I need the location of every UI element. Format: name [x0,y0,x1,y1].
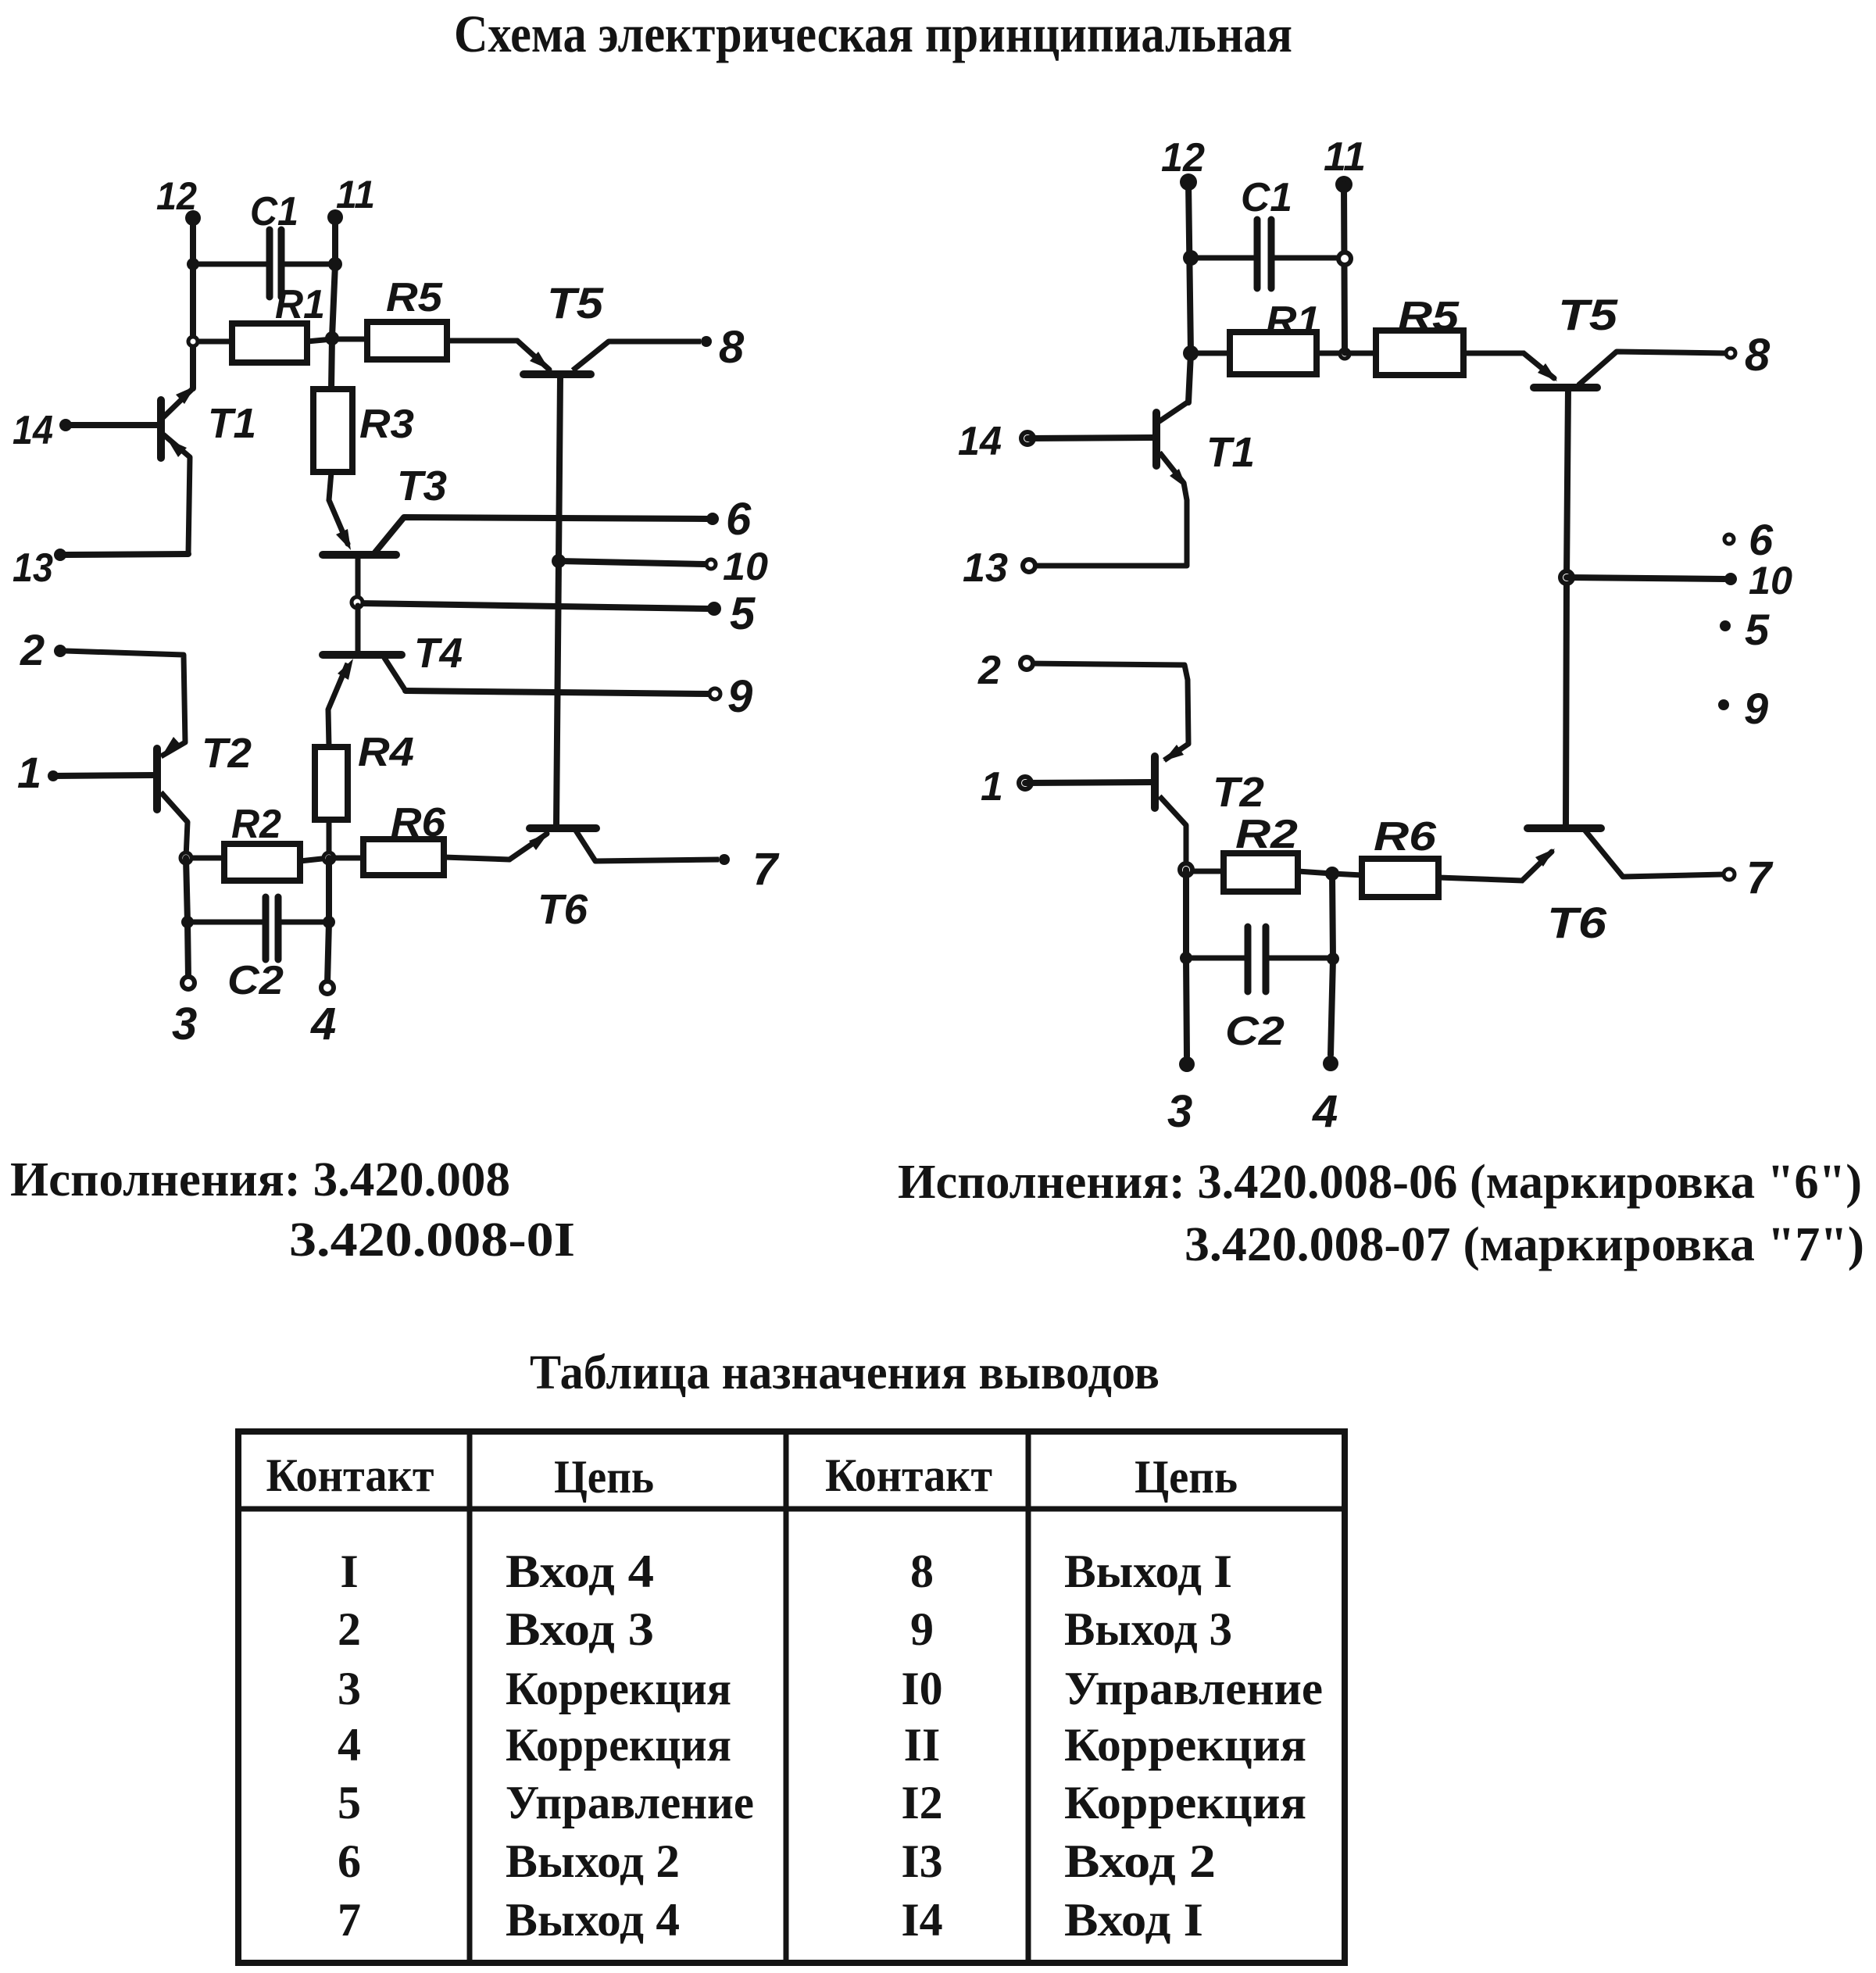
svg-text:R1: R1 [275,282,325,327]
junction C2 right (left) [323,916,335,928]
svg-text:Вход 3: Вход 3 [506,1603,654,1655]
capacitor C2 (left) [188,897,329,1003]
svg-text:II: II [904,1719,941,1771]
svg-text:Управление: Управление [1064,1663,1323,1714]
junction 12-C1 (right) [1183,250,1199,266]
svg-text:2: 2 [20,625,45,674]
svg-text:Вход I: Вход I [1064,1894,1203,1946]
node 13 (left) [54,549,66,561]
svg-text:Выход 4: Выход 4 [506,1894,680,1946]
svg-text:1: 1 [17,748,41,797]
table row 4: 4 Коррекция / II Коррекция [338,1719,1306,1771]
node 6 (left) [706,513,719,525]
svg-text:9: 9 [727,671,752,722]
node 3 (right) [1179,1056,1195,1072]
svg-text:12: 12 [1161,135,1205,181]
node 4 (left) [321,981,334,994]
wire T2col to pin3 (right) [1186,870,1187,1056]
capacitor C1 (left) [193,189,335,297]
node 5 (left) [707,602,721,616]
svg-text:Коррекция: Коррекция [506,1663,731,1714]
junction control-10 (left) [552,554,566,568]
svg-text:T5: T5 [547,278,604,327]
junction R2-R6 (right) [1325,867,1339,881]
svg-text:C2: C2 [227,958,284,1003]
svg-text:3: 3 [172,999,197,1049]
svg-text:Выход 3: Выход 3 [1064,1603,1232,1655]
wire to pin 6 (left) [375,517,707,552]
svg-text:9: 9 [1744,684,1768,733]
transistor T2 (right) [1027,663,1264,870]
svg-text:Коррекция: Коррекция [506,1719,731,1771]
svg-text:R5: R5 [1398,294,1460,339]
table row 3: 3 Коррекция / I0 Управление [338,1663,1323,1714]
svg-text:10: 10 [723,545,768,588]
transistor T5 (right) [1534,290,1725,388]
junction 11-C1 (right) [1338,252,1351,265]
wire R-node to pin4 (left) [327,858,329,983]
svg-text:R2: R2 [1235,812,1298,857]
transistor T6 (right) [1528,828,1724,947]
resistor R2 (right) [1186,812,1332,892]
svg-text:Вход 4: Вход 4 [506,1546,654,1597]
junction C2 left (left) [181,916,194,928]
resistor R1 (left) [193,282,332,363]
svg-text:Выход 2: Выход 2 [506,1835,680,1887]
svg-text:3.420.008-0I: 3.420.008-0I [289,1213,575,1267]
svg-text:5: 5 [1745,605,1770,654]
svg-text:6: 6 [338,1835,361,1887]
svg-text:9: 9 [910,1603,934,1655]
transistor T2 (left) [66,651,252,858]
pin assignment table frame [238,1431,1345,1963]
transistor T6 (left) [509,828,719,933]
node 5 (right) [1720,620,1731,631]
table row 1: I Вход 4 / 8 Выход I [340,1546,1232,1597]
node 2 (right) [1020,657,1033,670]
table header [266,1449,1238,1503]
svg-text:R6: R6 [391,800,446,845]
node 11 (right) [1335,176,1353,193]
node 8 (left) [701,336,712,347]
junction R1 left (left) [188,337,198,346]
node 10 (left) [706,559,716,569]
wire pin11 rail (right) [1344,184,1345,353]
table row 2: 2 Вход 3 / 9 Выход 3 [338,1603,1232,1655]
node 13 (right) [1023,559,1035,572]
node 2 (left) [54,645,66,657]
node 3 (left) [182,977,195,989]
transistor T1 (left) [161,386,256,554]
svg-text:R1: R1 [1266,298,1320,344]
resistor R5 (right) [1345,294,1554,378]
svg-text:7: 7 [752,844,780,895]
svg-text:T5: T5 [1558,290,1618,339]
svg-text:2: 2 [977,648,1001,693]
wire to pin 10 (right) [1567,577,1724,579]
svg-text:3: 3 [338,1663,361,1714]
svg-text:4: 4 [1312,1086,1338,1137]
svg-text:2: 2 [338,1603,361,1655]
transistor T5 (left) [517,278,701,374]
svg-text:13: 13 [963,545,1008,591]
svg-text:Таблица назначения выводов: Таблица назначения выводов [530,1346,1160,1399]
svg-text:Контакт: Контакт [825,1449,992,1501]
capacitor C1 (right) [1191,175,1345,288]
svg-text:T2: T2 [202,730,252,777]
wire pin11 rail (left) [331,217,335,389]
svg-text:R6: R6 [1374,814,1437,860]
junction T2-R2 (right) [1180,863,1192,876]
svg-text:Выход I: Выход I [1064,1546,1232,1597]
wire pin14-T1 base (right) [1027,438,1154,438]
junction 11-C1 (left) [328,257,342,271]
svg-text:Управление: Управление [506,1777,754,1828]
node 12 (right) [1180,173,1197,191]
svg-text:I2: I2 [901,1777,942,1828]
node 4 (right) [1323,1056,1338,1071]
junction base T3/T4 (left) [352,597,363,608]
table row 5: 5 Управление / I2 Коррекция [338,1777,1306,1828]
transistor T4 (left) [323,606,463,747]
node 10 (right) [1724,573,1737,585]
transistor T3 (left) [323,463,447,602]
node 14 (right) [1021,432,1034,445]
wire control line (right) [1566,388,1568,825]
wire to pin 10 (left) [559,561,705,564]
junction R1-R5 (right) [1340,349,1349,359]
svg-text:I0: I0 [901,1663,942,1714]
node 7 (right) [1724,869,1735,880]
svg-text:Схема электрическая принципиал: Схема электрическая принципиальная [454,4,1292,63]
junction R2-R4-R6 (left) [323,852,334,863]
node 9 (right) [1718,699,1729,710]
svg-text:11: 11 [1324,134,1366,180]
resistor R4 (left) [315,730,414,858]
svg-text:T3: T3 [397,463,447,509]
svg-text:Контакт: Контакт [266,1449,434,1501]
resistor R1 (right) [1191,298,1345,374]
svg-text:Цепь: Цепь [1135,1451,1238,1503]
node 12 (left) [185,210,201,226]
wire pin14-T1 base (left) [66,422,159,428]
wire pin12 rail (right) [1188,182,1191,402]
capacitor C2 (right) [1186,927,1333,1054]
wire pin12 rail (left) [190,218,196,388]
svg-text:7: 7 [338,1894,361,1946]
svg-text:Коррекция: Коррекция [1064,1777,1306,1828]
wire pin1-T2 base (left) [53,775,155,776]
svg-text:5: 5 [730,588,756,639]
svg-text:10: 10 [1749,559,1792,602]
svg-text:5: 5 [338,1777,361,1828]
junction C2 left (right) [1180,952,1192,964]
wire T2 col to pin3 (left) [186,858,188,978]
wire R2R6 to pin4 (right) [1331,874,1333,1055]
resistor R3 (left) [313,389,414,544]
svg-text:T4: T4 [414,630,463,677]
node 11 (left) [327,209,343,225]
svg-text:13: 13 [13,545,53,591]
wire pin13-T1 (left) [66,554,188,555]
wire control line (left) [556,377,560,825]
node 8 (right) [1726,348,1735,358]
svg-text:12: 12 [156,174,197,218]
svg-text:6: 6 [1749,515,1774,564]
svg-text:6: 6 [726,494,752,545]
junction control-10 (right) [1560,571,1573,584]
junction T2-R2 (left) [180,852,191,863]
node 7 (left) [719,854,730,865]
junction 12-C1 (left) [187,258,199,270]
svg-text:14: 14 [958,419,1002,464]
node 9 (left) [709,688,720,699]
resistor R6 (left) [329,800,509,875]
svg-text:Исполнения: 3.420.008-06 (марк: Исполнения: 3.420.008-06 (маркировка "6"… [898,1156,1862,1209]
resistor R2 (left) [186,802,329,881]
transistor T1 (right) [1029,402,1255,566]
svg-text:I4: I4 [901,1894,942,1946]
svg-text:8: 8 [1745,330,1771,381]
resistor R6 (right) [1332,814,1552,897]
svg-text:R2: R2 [231,802,281,847]
svg-text:R3: R3 [359,402,414,447]
node 14 (left) [59,419,72,431]
wire to pin 9 (left) [406,691,709,694]
svg-text:Цепь: Цепь [554,1451,654,1503]
svg-text:C1: C1 [250,189,298,234]
svg-text:4: 4 [310,999,336,1049]
table row 6: 6 Выход 2 / I3 Вход 2 [338,1835,1216,1887]
node 1 (right) [1019,777,1031,789]
svg-text:C1: C1 [1241,175,1292,220]
svg-text:3.420.008-07 (маркировка "7"): 3.420.008-07 (маркировка "7") [1185,1218,1864,1271]
svg-text:3: 3 [1167,1086,1192,1137]
svg-text:R5: R5 [386,275,443,320]
svg-text:T2: T2 [1213,769,1264,816]
svg-text:R4: R4 [358,730,414,775]
svg-text:Вход 2: Вход 2 [1064,1835,1216,1887]
wire pin1-T2 base (right) [1025,782,1152,783]
svg-text:8: 8 [910,1546,934,1597]
svg-text:Исполнения: 3.420.008: Исполнения: 3.420.008 [10,1153,510,1206]
svg-text:4: 4 [338,1719,361,1771]
svg-text:I3: I3 [901,1835,942,1887]
svg-text:C2: C2 [1225,1009,1285,1054]
svg-text:Коррекция: Коррекция [1064,1719,1306,1771]
svg-text:7: 7 [1746,852,1774,903]
junction R1-R5-R3 (left) [325,331,339,345]
svg-text:T6: T6 [1547,898,1607,947]
svg-text:I: I [340,1546,358,1597]
junction C2 right (right) [1327,953,1339,965]
resistor R5 (left) [332,275,517,359]
svg-text:14: 14 [13,408,53,453]
wire to pin 5 (left) [357,603,708,609]
svg-text:8: 8 [719,322,745,373]
junction R1 left (right) [1183,345,1199,361]
node 1 (left) [48,770,59,781]
node 6 (right) [1724,534,1734,544]
table row 7: 7 Выход 4 / I4 Вход I [338,1894,1203,1946]
svg-text:T6: T6 [538,886,588,933]
svg-text:T1: T1 [1206,429,1255,476]
svg-text:1: 1 [981,764,1003,810]
svg-text:T1: T1 [208,400,256,447]
svg-text:11: 11 [336,173,375,216]
